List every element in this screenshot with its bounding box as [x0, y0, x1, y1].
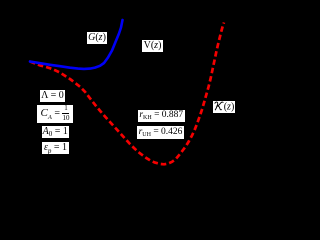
box A_0 = 1	[42, 126, 70, 138]
box eps_p = 1	[42, 142, 69, 154]
label V(z)	[142, 40, 163, 53]
box r_UH = 0.426	[137, 126, 184, 139]
label G(z)	[87, 32, 107, 44]
curve K(z) red dashed	[30, 23, 224, 165]
box C_A = 1/10	[37, 105, 73, 123]
box r_KH = 0.887	[138, 110, 185, 122]
curve G(z) blue solid	[30, 20, 123, 69]
box Lambda = 0	[40, 90, 65, 103]
figure: potential landscape plot, black background	[0, 0, 273, 175]
label K(z)	[213, 101, 235, 113]
